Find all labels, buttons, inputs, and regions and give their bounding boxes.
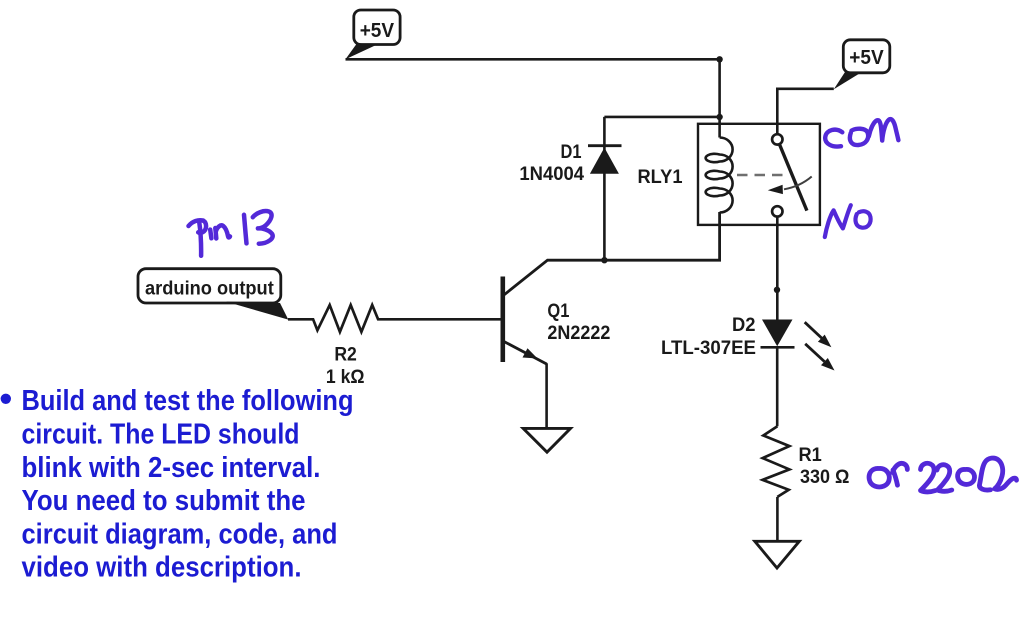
junction C (NO / LED node): [774, 287, 780, 293]
wire top +5V rail: [346, 58, 720, 61]
svg-text:You need to submit the: You need to submit the: [22, 485, 306, 517]
wire R1 to ground: [776, 497, 779, 541]
wire relay coil feed: [718, 59, 721, 137]
junction D (D1 bottom tap): [601, 257, 607, 263]
relay actuation arrow: [768, 177, 812, 195]
svg-text:R2: R2: [334, 345, 357, 366]
transistor Q1: [503, 277, 547, 365]
relay COM terminal: [772, 134, 782, 144]
wire coil bottom / collector rail: [503, 212, 720, 296]
svg-text:LTL-307EE: LTL-307EE: [661, 338, 756, 359]
svg-text:blink with 2-sec interval.: blink with 2-sec interval.: [22, 452, 321, 484]
resistor R2: [288, 305, 501, 332]
ground (under R1): [755, 541, 800, 568]
svg-text:2N2222: 2N2222: [547, 323, 610, 344]
power flag +5V (left): [346, 10, 401, 59]
annotation Pin 13 (handwritten): [189, 211, 273, 256]
note text (blue): [1, 385, 354, 584]
svg-text:330 Ω: 330 Ω: [800, 467, 849, 488]
junction B (D1 top tap): [716, 114, 722, 120]
svg-text:video with description.: video with description.: [22, 552, 302, 584]
LED D2: [761, 320, 835, 371]
svg-text:1N4004: 1N4004: [519, 164, 584, 185]
wire emitter down: [545, 363, 548, 428]
svg-text:D1: D1: [561, 142, 582, 163]
svg-text:D2: D2: [732, 315, 756, 336]
annotation or 220 Ohm (handwritten, alt value for R1): [869, 458, 1016, 492]
resistor R1: [763, 426, 790, 497]
svg-text:R1: R1: [799, 445, 823, 466]
wire NO to LED: [776, 217, 779, 320]
svg-text:+5V: +5V: [360, 20, 395, 42]
svg-text:RLY1: RLY1: [638, 167, 683, 188]
pin label arduino output: [138, 269, 288, 320]
annotation Com (handwritten, COM contact): [825, 119, 898, 146]
svg-text:circuit diagram, code, and: circuit diagram, code, and: [22, 519, 338, 551]
power flag +5V (right): [834, 40, 890, 89]
annotation No (handwritten, NO contact): [825, 205, 871, 237]
diode D1: [588, 117, 622, 260]
wire LED to R1: [776, 347, 779, 426]
relay RLY1 box: [698, 124, 820, 225]
svg-text:Q1: Q1: [547, 301, 569, 322]
wire +5V to COM: [777, 89, 834, 134]
relay coil: [706, 138, 733, 213]
svg-text:+5V: +5V: [849, 47, 884, 69]
svg-text:Build and test the following: Build and test the following: [22, 385, 354, 417]
relay NO terminal: [772, 206, 782, 216]
relay switch arm: [780, 145, 807, 211]
svg-text:arduino output: arduino output: [145, 279, 274, 300]
svg-text:circuit. The LED should: circuit. The LED should: [22, 419, 300, 451]
junction A (top rail to relay branch): [716, 56, 722, 62]
wire D1 top: [604, 116, 719, 119]
ground (under Q1): [523, 428, 570, 452]
relay actuation dashed link: [737, 174, 783, 177]
